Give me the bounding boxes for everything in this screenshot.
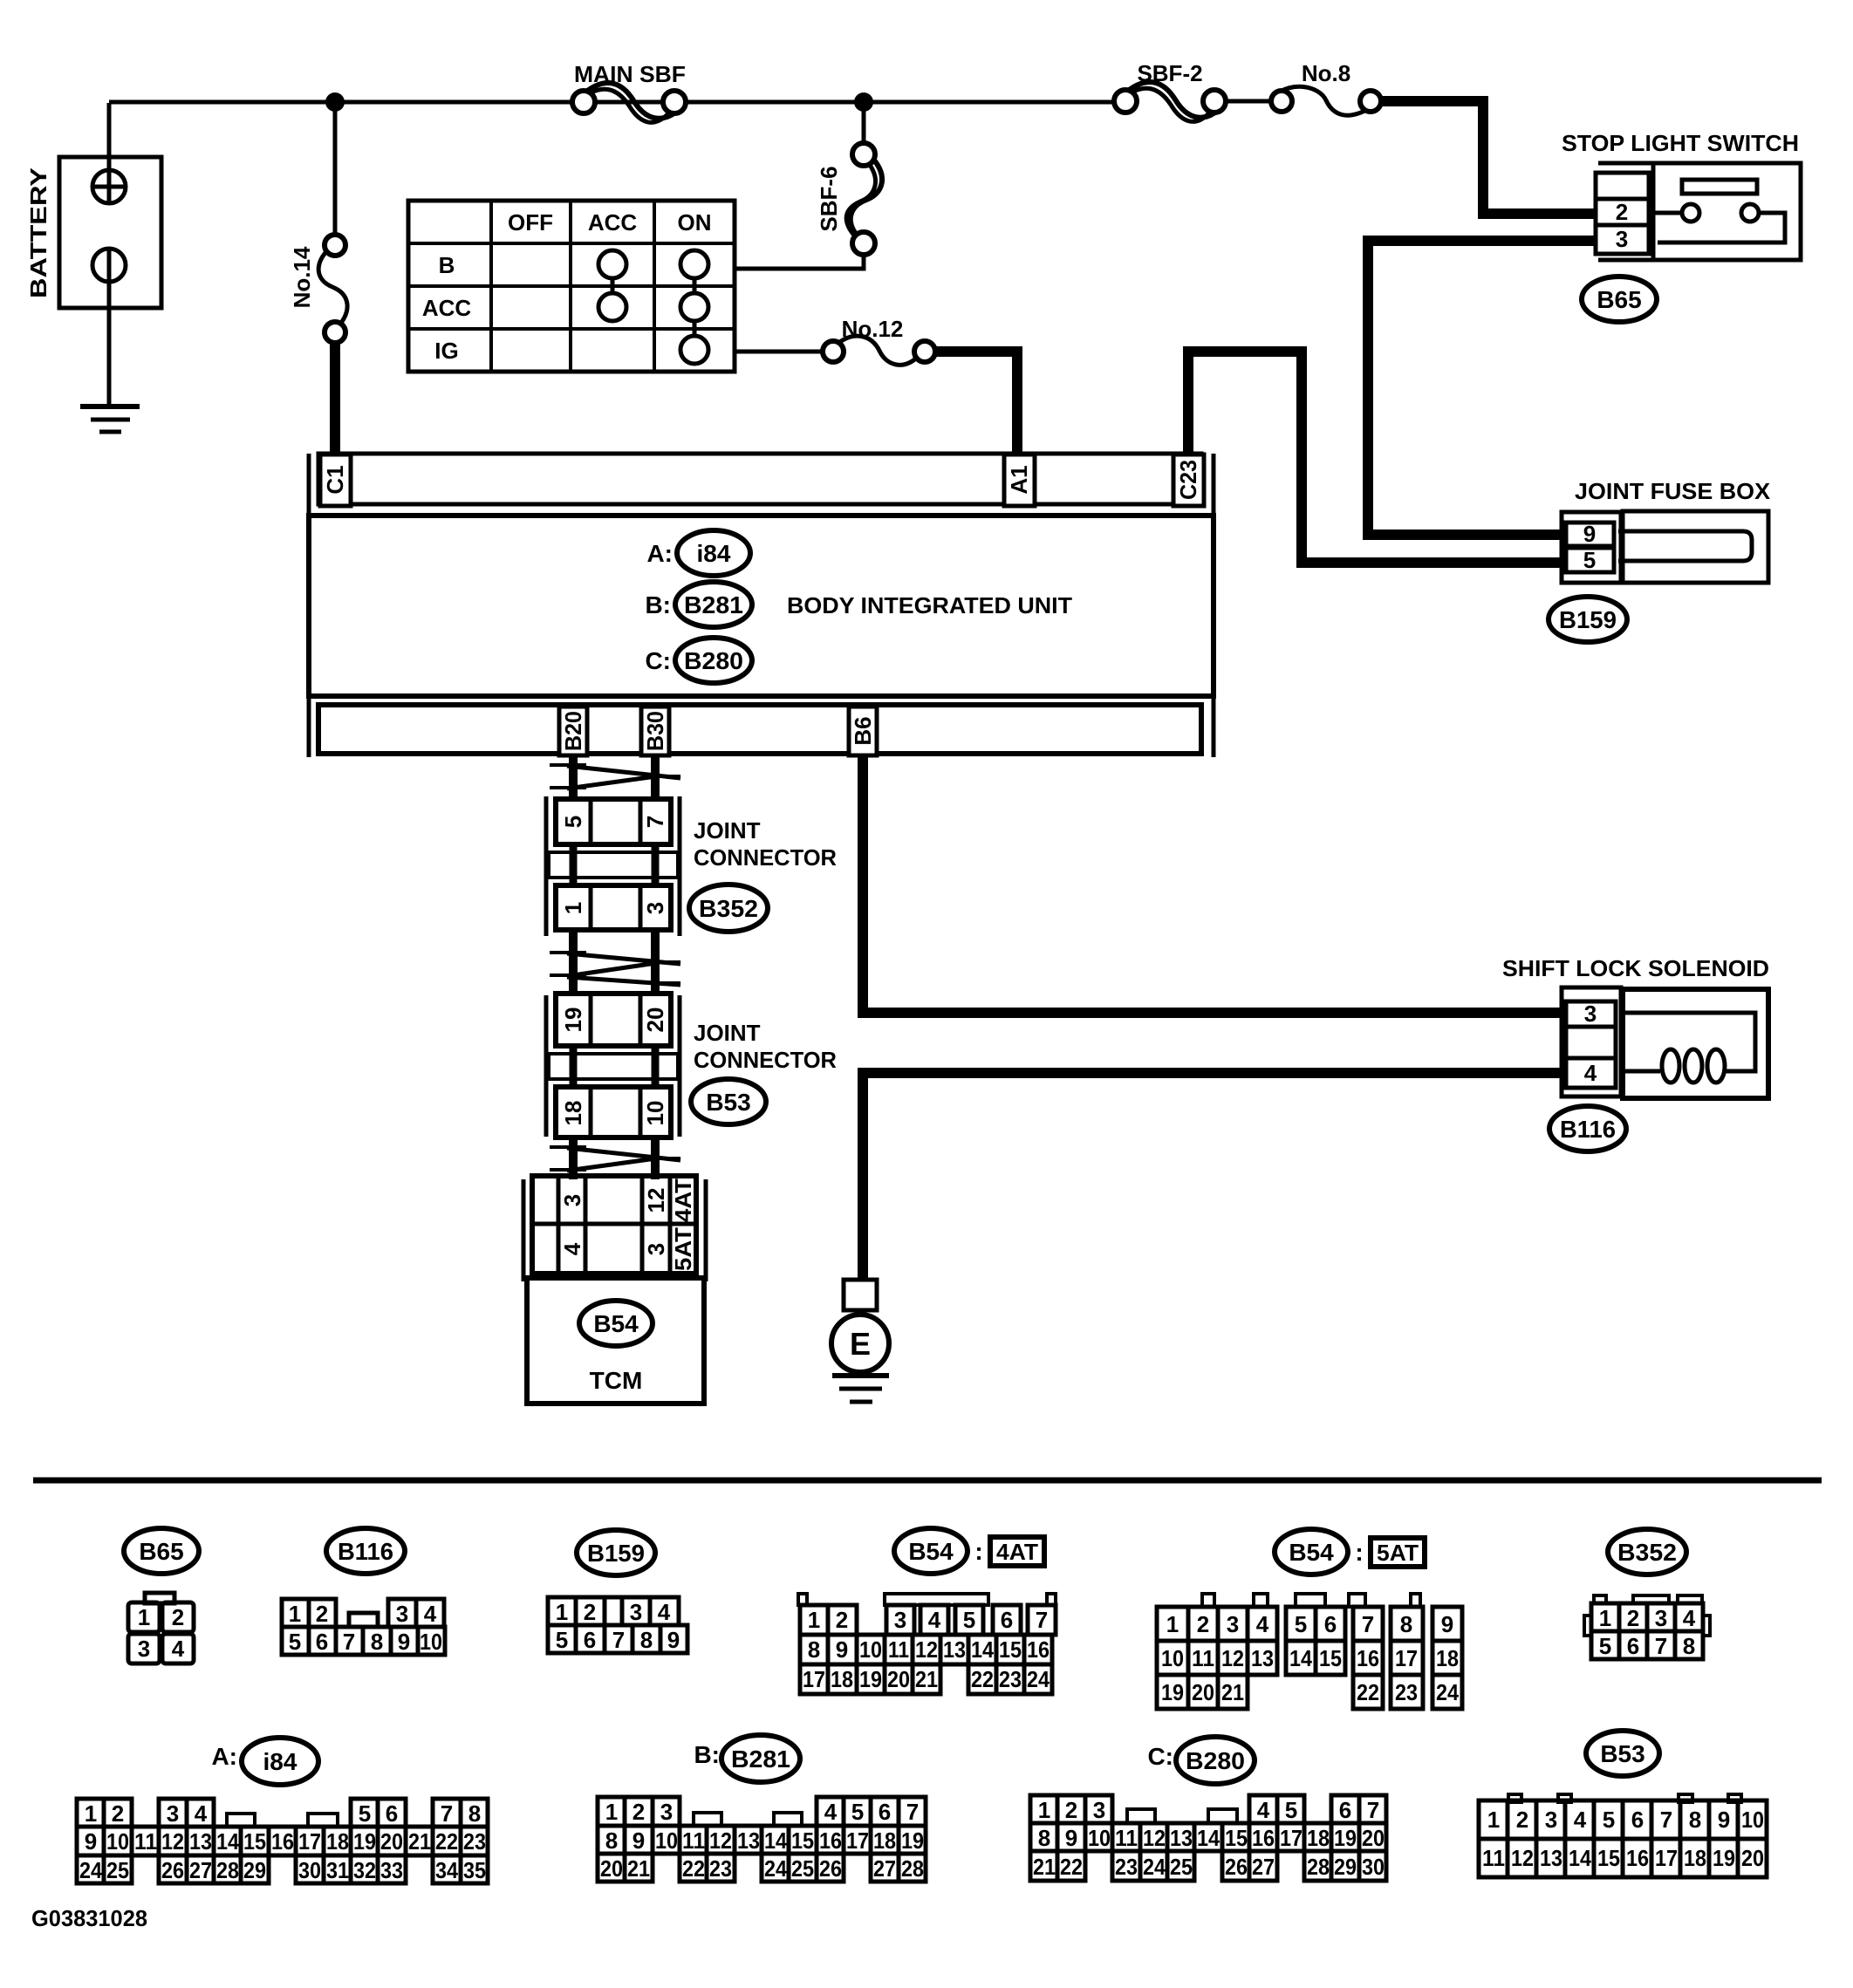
svg-text:21: 21	[915, 1666, 938, 1692]
wire main bus	[109, 100, 1125, 105]
svg-text:7: 7	[441, 1800, 453, 1827]
svg-text:1: 1	[808, 1607, 820, 1633]
svg-text:18: 18	[560, 1101, 586, 1126]
pin B20 body integrated unit	[559, 707, 587, 755]
svg-text:6: 6	[584, 1627, 596, 1653]
svg-text:25: 25	[1170, 1854, 1193, 1880]
svg-text:22: 22	[1357, 1679, 1379, 1705]
svg-text:17: 17	[1280, 1825, 1303, 1851]
svg-text:3: 3	[167, 1800, 179, 1827]
svg-text:21: 21	[1033, 1854, 1056, 1880]
svg-text:19: 19	[353, 1828, 376, 1855]
svg-text:24: 24	[1436, 1679, 1459, 1705]
svg-text:8: 8	[605, 1827, 618, 1854]
svg-text:2: 2	[1065, 1797, 1077, 1823]
svg-text:14: 14	[1289, 1645, 1312, 1671]
svg-text:5: 5	[963, 1607, 975, 1633]
svg-text:8: 8	[1038, 1825, 1050, 1851]
svg-text:18: 18	[1307, 1825, 1330, 1851]
wire battery negative to ground	[107, 249, 112, 406]
svg-text:7: 7	[1362, 1611, 1374, 1637]
svg-text:B65: B65	[139, 1538, 183, 1565]
ignition switch contacts ACC column	[598, 250, 626, 278]
pin C23 body integrated unit	[1173, 454, 1204, 506]
svg-text:26: 26	[819, 1855, 842, 1882]
svg-text:11: 11	[1192, 1645, 1214, 1671]
svg-text:16: 16	[1027, 1636, 1050, 1663]
joint connector B352 (upper)	[546, 796, 680, 936]
svg-text:17: 17	[803, 1666, 825, 1692]
connector B B281 pinout	[598, 1735, 926, 1882]
fuse No.14	[289, 102, 347, 343]
svg-text:27: 27	[189, 1857, 212, 1883]
joint fuse box	[1562, 478, 1771, 583]
svg-text:2: 2	[1627, 1605, 1639, 1631]
svg-text:8: 8	[808, 1636, 820, 1663]
svg-text:C23: C23	[1175, 460, 1201, 500]
svg-text:19: 19	[560, 1008, 586, 1033]
svg-text:2: 2	[1616, 199, 1628, 225]
svg-text:B280: B280	[684, 647, 743, 674]
wire No.12 to A1	[934, 352, 1017, 456]
svg-text:C:: C:	[645, 647, 671, 674]
svg-text:21: 21	[408, 1828, 431, 1855]
svg-text:STOP LIGHT SWITCH: STOP LIGHT SWITCH	[1562, 130, 1799, 156]
svg-text:23: 23	[1115, 1854, 1138, 1880]
svg-text:A:: A:	[646, 540, 673, 567]
svg-text:7: 7	[1655, 1633, 1667, 1659]
svg-text:18: 18	[1436, 1645, 1459, 1671]
svg-text:2: 2	[836, 1607, 848, 1633]
svg-text:B30: B30	[642, 711, 668, 751]
svg-text:3: 3	[630, 1599, 642, 1625]
svg-text:5AT: 5AT	[1377, 1540, 1419, 1566]
svg-text:24: 24	[1143, 1854, 1166, 1880]
svg-text:30: 30	[1362, 1854, 1385, 1880]
svg-text:1: 1	[138, 1604, 150, 1630]
svg-text:5AT: 5AT	[670, 1227, 696, 1271]
svg-text:21: 21	[627, 1855, 650, 1882]
svg-text:20: 20	[642, 1008, 668, 1033]
svg-text:14: 14	[1569, 1845, 1591, 1871]
svg-text:B6: B6	[850, 716, 876, 745]
svg-text:1: 1	[1166, 1611, 1179, 1637]
svg-text:16: 16	[1252, 1825, 1275, 1851]
fuse SBF-6	[816, 102, 882, 255]
svg-text:ACC: ACC	[422, 295, 472, 321]
svg-text:7: 7	[1660, 1807, 1672, 1833]
svg-text:18: 18	[1684, 1845, 1706, 1871]
svg-text:1: 1	[289, 1601, 301, 1627]
svg-text:4: 4	[824, 1799, 838, 1825]
connector B65 pinout	[124, 1528, 199, 1663]
connector B116	[1549, 1106, 1626, 1151]
shift lock solenoid	[1502, 955, 1769, 1098]
svg-text:A:: A:	[211, 1743, 237, 1770]
wire crossing twist B20/B30	[550, 765, 680, 789]
svg-text:9: 9	[1441, 1611, 1453, 1637]
svg-text:27: 27	[873, 1855, 896, 1882]
svg-text:7: 7	[343, 1629, 355, 1655]
svg-text:3: 3	[1227, 1611, 1239, 1637]
fuse No.8	[1271, 60, 1381, 115]
svg-text:B53: B53	[706, 1089, 750, 1116]
pin C1 body integrated unit	[320, 454, 351, 506]
svg-text:7: 7	[642, 816, 668, 828]
svg-text:6: 6	[316, 1629, 328, 1655]
svg-text:B:: B:	[645, 591, 671, 618]
svg-text:12: 12	[161, 1828, 184, 1855]
svg-text:17: 17	[846, 1827, 869, 1854]
connector B159 pinout	[548, 1530, 687, 1653]
pin B30 body integrated unit	[641, 707, 669, 755]
connector B53 pinout	[1479, 1731, 1767, 1877]
svg-text:19: 19	[1161, 1679, 1184, 1705]
svg-text:10: 10	[106, 1828, 129, 1855]
wire ignition IG row to No.12	[735, 350, 833, 354]
node B connector label B281	[645, 582, 752, 627]
svg-text:No.12: No.12	[842, 316, 904, 342]
wire No.8 to stop light switch pin 2	[1380, 101, 1596, 214]
svg-text:4: 4	[1574, 1807, 1587, 1833]
svg-text:29: 29	[243, 1857, 266, 1883]
svg-text:8: 8	[468, 1800, 481, 1827]
svg-text:B352: B352	[699, 895, 758, 922]
svg-text:3: 3	[138, 1636, 150, 1662]
svg-text:JOINT: JOINT	[694, 1020, 761, 1046]
svg-text:2: 2	[1197, 1611, 1209, 1637]
svg-text:13: 13	[1170, 1825, 1193, 1851]
svg-text:5: 5	[289, 1629, 301, 1655]
ground (battery)	[80, 406, 140, 432]
svg-text:4: 4	[559, 1242, 585, 1255]
svg-text:5: 5	[556, 1627, 568, 1653]
svg-text:18: 18	[326, 1828, 349, 1855]
wire B30 to joint connector B352 pin 7	[651, 755, 660, 801]
svg-text:13: 13	[737, 1827, 760, 1854]
svg-text:12: 12	[1221, 1645, 1244, 1671]
svg-text:5: 5	[1295, 1611, 1307, 1637]
wire ignition B row to SBF-6	[735, 253, 864, 269]
svg-text:ACC: ACC	[588, 209, 638, 236]
svg-text:28: 28	[216, 1857, 239, 1883]
ground E terminal	[831, 1280, 889, 1372]
svg-text:JOINT FUSE BOX: JOINT FUSE BOX	[1575, 478, 1771, 504]
svg-text:6: 6	[1631, 1807, 1644, 1833]
svg-text:2: 2	[632, 1799, 645, 1825]
svg-text:E: E	[850, 1326, 871, 1362]
svg-text:1: 1	[556, 1599, 568, 1625]
svg-text:33: 33	[380, 1857, 403, 1883]
svg-text:23: 23	[463, 1828, 486, 1855]
svg-text:B:: B:	[694, 1741, 720, 1768]
separator line	[33, 1478, 1822, 1484]
svg-text:1: 1	[605, 1799, 618, 1825]
svg-text:4: 4	[424, 1601, 437, 1627]
svg-text:29: 29	[1334, 1854, 1357, 1880]
svg-text:6: 6	[386, 1800, 398, 1827]
svg-text:5: 5	[1599, 1633, 1611, 1659]
svg-text:2: 2	[112, 1800, 124, 1827]
svg-text:22: 22	[682, 1855, 705, 1882]
svg-text:7: 7	[1036, 1607, 1048, 1633]
svg-text:19: 19	[1713, 1845, 1735, 1871]
svg-text:12: 12	[709, 1827, 732, 1854]
svg-text:12: 12	[915, 1636, 938, 1663]
svg-text:17: 17	[1395, 1645, 1418, 1671]
ground symbol E	[832, 1376, 889, 1402]
svg-text:CONNECTOR: CONNECTOR	[694, 844, 837, 871]
joint connector B53 (lower)	[546, 994, 680, 1137]
svg-text:SHIFT LOCK SOLENOID: SHIFT LOCK SOLENOID	[1502, 955, 1769, 981]
svg-text:15: 15	[1319, 1645, 1342, 1671]
svg-text:4: 4	[1683, 1605, 1696, 1631]
ignition switch table	[408, 201, 735, 372]
svg-text:21: 21	[1221, 1679, 1244, 1705]
svg-text:20: 20	[1192, 1679, 1214, 1705]
svg-text:4AT: 4AT	[670, 1178, 696, 1222]
svg-text:26: 26	[161, 1857, 184, 1883]
svg-text:15: 15	[999, 1636, 1022, 1663]
svg-text:24: 24	[1027, 1666, 1050, 1692]
svg-text:23: 23	[1395, 1679, 1418, 1705]
svg-text:25: 25	[791, 1855, 814, 1882]
svg-text:22: 22	[435, 1828, 458, 1855]
svg-text:3: 3	[643, 1243, 669, 1255]
svg-text:26: 26	[1225, 1854, 1248, 1880]
wire stop light pin 3 to joint fuse box pin 9	[1368, 241, 1596, 535]
wire crossing twist B53/TCM	[550, 1147, 680, 1171]
svg-text:5: 5	[1285, 1797, 1297, 1823]
svg-text:9: 9	[632, 1827, 645, 1854]
svg-text:6: 6	[1324, 1611, 1337, 1637]
svg-text:11: 11	[888, 1636, 909, 1663]
svg-text:B281: B281	[684, 591, 743, 618]
svg-text:No.8: No.8	[1302, 60, 1350, 86]
svg-text:18: 18	[873, 1827, 896, 1854]
svg-text:10: 10	[1088, 1825, 1111, 1851]
svg-text:32: 32	[353, 1857, 376, 1883]
svg-text:15: 15	[791, 1827, 814, 1854]
svg-text:11: 11	[1115, 1825, 1138, 1851]
svg-text:28: 28	[1307, 1854, 1330, 1880]
solenoid coil L1	[1662, 1049, 1725, 1083]
svg-text:30: 30	[298, 1857, 321, 1883]
svg-text:10: 10	[1741, 1807, 1764, 1833]
svg-text:6: 6	[879, 1799, 891, 1825]
svg-text:CONNECTOR: CONNECTOR	[694, 1047, 837, 1073]
TCM unit B54	[527, 1278, 704, 1404]
svg-text:16: 16	[819, 1827, 842, 1854]
svg-text:12: 12	[1511, 1845, 1534, 1871]
connector B159	[1549, 597, 1627, 642]
connector B352 balloon	[689, 885, 768, 932]
svg-text:A1: A1	[1006, 465, 1032, 494]
svg-text:5: 5	[560, 816, 586, 828]
svg-text:18: 18	[831, 1666, 853, 1692]
body integrated unit	[309, 454, 1214, 757]
svg-text:4: 4	[1584, 1060, 1597, 1086]
svg-text:B116: B116	[1560, 1116, 1616, 1143]
svg-text:10: 10	[655, 1827, 678, 1854]
svg-text:28: 28	[901, 1855, 924, 1882]
svg-text:2: 2	[316, 1601, 328, 1627]
svg-text:3: 3	[894, 1607, 906, 1633]
svg-text:2: 2	[172, 1604, 184, 1630]
svg-text:5: 5	[1603, 1807, 1615, 1833]
svg-text:BODY INTEGRATED UNIT: BODY INTEGRATED UNIT	[787, 592, 1072, 618]
svg-text:8: 8	[371, 1629, 383, 1655]
svg-text:22: 22	[971, 1666, 994, 1692]
svg-text:7: 7	[906, 1799, 919, 1825]
svg-text:B159: B159	[587, 1540, 645, 1567]
svg-text:3: 3	[559, 1194, 585, 1206]
svg-text:G03831028: G03831028	[31, 1905, 147, 1931]
svg-text:9: 9	[1718, 1807, 1730, 1833]
svg-text:11: 11	[682, 1827, 705, 1854]
svg-text:3: 3	[660, 1799, 673, 1825]
wire B53 pin 18 to TCM pin 3	[569, 1137, 578, 1179]
svg-text:23: 23	[709, 1855, 732, 1882]
svg-text:3: 3	[396, 1601, 408, 1627]
connector B53 balloon	[691, 1079, 766, 1124]
wire B352 pin 3 to B53 pin 20	[651, 930, 660, 995]
wire B6 to shift lock solenoid pin 3	[863, 755, 1562, 1013]
wire C23 to joint fuse box pin 5	[1188, 352, 1562, 563]
svg-text:B54: B54	[593, 1310, 639, 1337]
svg-text:34: 34	[435, 1857, 458, 1883]
svg-text:6: 6	[1001, 1607, 1013, 1633]
svg-text:B281: B281	[731, 1745, 790, 1773]
svg-text::: :	[1355, 1539, 1363, 1566]
svg-text:19: 19	[859, 1666, 882, 1692]
svg-text:C1: C1	[322, 465, 348, 494]
svg-text:BATTERY: BATTERY	[25, 167, 51, 298]
svg-text:OFF: OFF	[508, 209, 553, 236]
svg-text:1: 1	[560, 902, 586, 914]
node C connector label B280	[645, 638, 752, 683]
svg-text:7: 7	[1367, 1797, 1379, 1823]
svg-text:1: 1	[1487, 1807, 1500, 1833]
svg-text:B65: B65	[1597, 286, 1641, 313]
svg-text:22: 22	[1060, 1854, 1083, 1880]
svg-text:23: 23	[999, 1666, 1022, 1692]
svg-text:4: 4	[658, 1599, 671, 1625]
svg-text:6: 6	[1627, 1633, 1639, 1659]
node junction bus / No.14	[325, 92, 345, 112]
svg-text:27: 27	[1252, 1854, 1275, 1880]
svg-text:3: 3	[642, 902, 668, 914]
svg-text:9: 9	[398, 1629, 410, 1655]
pin B6 body integrated unit	[849, 707, 877, 755]
svg-text:13: 13	[943, 1636, 966, 1663]
svg-text:14: 14	[764, 1827, 787, 1854]
connector B54 4AT pinout	[798, 1528, 1056, 1694]
wire shift lock solenoid pin 4 to ground E	[863, 1073, 1562, 1280]
svg-text::: :	[974, 1538, 982, 1565]
svg-text:9: 9	[1065, 1825, 1077, 1851]
wire SBF-2 to No.8	[1226, 99, 1271, 104]
svg-text:i84: i84	[697, 540, 731, 567]
battery	[25, 157, 161, 308]
svg-text:No.14: No.14	[289, 246, 315, 308]
svg-text:4: 4	[928, 1607, 941, 1633]
wire B53 pin 10 to TCM pin 12	[651, 1137, 660, 1179]
svg-text:B159: B159	[1559, 606, 1617, 633]
svg-text:13: 13	[1251, 1645, 1274, 1671]
svg-text:MAIN SBF: MAIN SBF	[574, 61, 686, 87]
svg-text:8: 8	[1683, 1633, 1695, 1659]
svg-text:9: 9	[667, 1627, 680, 1653]
svg-text:3: 3	[1545, 1807, 1557, 1833]
svg-text:11: 11	[1482, 1845, 1505, 1871]
svg-text:12: 12	[1143, 1825, 1166, 1851]
svg-text:14: 14	[971, 1636, 994, 1663]
svg-text:B54: B54	[908, 1538, 954, 1565]
svg-text:SBF-6: SBF-6	[816, 166, 842, 231]
fuse MAIN SBF	[572, 61, 686, 122]
svg-text:17: 17	[1655, 1845, 1678, 1871]
svg-text:24: 24	[764, 1855, 787, 1882]
svg-text:19: 19	[1334, 1825, 1357, 1851]
svg-text:31: 31	[326, 1857, 349, 1883]
svg-text:24: 24	[79, 1857, 102, 1883]
svg-text:20: 20	[380, 1828, 403, 1855]
svg-text:4: 4	[1257, 1797, 1270, 1823]
svg-text:3: 3	[1584, 1001, 1597, 1027]
wire B352 pin 1 to B53 pin 19	[569, 930, 578, 995]
svg-text:12: 12	[643, 1188, 669, 1213]
svg-text:16: 16	[271, 1828, 294, 1855]
svg-text:14: 14	[1197, 1825, 1220, 1851]
svg-text:3: 3	[1655, 1605, 1667, 1631]
TCM connector grid	[523, 1176, 706, 1281]
svg-text:16: 16	[1357, 1645, 1379, 1671]
svg-text:B: B	[439, 252, 455, 278]
svg-text:9: 9	[836, 1636, 848, 1663]
svg-text:B53: B53	[1600, 1740, 1644, 1767]
connector A i84 pinout	[77, 1738, 488, 1883]
connector B116 pinout	[282, 1528, 445, 1655]
svg-text:7: 7	[612, 1627, 625, 1653]
svg-text:4: 4	[1256, 1611, 1269, 1637]
connector C B280 pinout	[1030, 1737, 1386, 1881]
svg-text:JOINT: JOINT	[694, 817, 761, 844]
svg-text:15: 15	[1597, 1845, 1620, 1871]
svg-text:B20: B20	[560, 711, 586, 751]
connector B54 5AT pinout	[1157, 1529, 1462, 1709]
svg-text:10: 10	[642, 1101, 668, 1126]
svg-text:2: 2	[1516, 1807, 1528, 1833]
svg-text:4: 4	[195, 1800, 208, 1827]
svg-text:10: 10	[859, 1636, 882, 1663]
svg-text:4: 4	[172, 1636, 185, 1662]
svg-text:15: 15	[243, 1828, 266, 1855]
svg-text:SBF-2: SBF-2	[1137, 60, 1202, 86]
svg-text:20: 20	[887, 1666, 910, 1692]
svg-text:1: 1	[85, 1800, 97, 1827]
svg-text:ON: ON	[678, 209, 712, 236]
svg-text:2: 2	[584, 1599, 596, 1625]
svg-text:20: 20	[600, 1855, 623, 1882]
connector B352 pinout	[1584, 1529, 1710, 1659]
svg-text:25: 25	[106, 1857, 129, 1883]
svg-text:C:: C:	[1147, 1743, 1173, 1770]
svg-text:B54: B54	[1289, 1539, 1334, 1566]
svg-text:3: 3	[1093, 1797, 1105, 1823]
ignition switch contacts ON column	[680, 250, 708, 278]
svg-text:IG: IG	[434, 338, 458, 364]
